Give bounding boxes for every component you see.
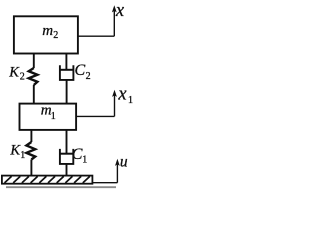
svg-text:1: 1 — [82, 155, 87, 166]
damper C2 — [60, 54, 74, 104]
svg-text:2: 2 — [20, 71, 25, 82]
label C1 — [72, 146, 88, 166]
mass m1 — [20, 104, 77, 130]
svg-text:1: 1 — [20, 150, 25, 161]
label x — [115, 1, 125, 21]
svg-text:m: m — [42, 23, 53, 39]
svg-text:1: 1 — [51, 111, 56, 122]
arrow x1 — [112, 90, 117, 117]
arrow x — [112, 5, 117, 36]
arrow u — [115, 159, 120, 183]
label x1 — [117, 85, 133, 106]
svg-text:2: 2 — [86, 71, 91, 82]
ground hatching — [5, 176, 90, 183]
wire from m2 to x arrow — [78, 35, 114, 37]
label K1 — [9, 142, 25, 161]
label m2 — [42, 23, 58, 41]
label u — [120, 154, 128, 171]
label K2 — [8, 64, 25, 82]
ground base bar — [2, 176, 93, 184]
svg-text:1: 1 — [128, 95, 133, 106]
svg-text:K: K — [8, 64, 20, 80]
wire from base to u arrow — [92, 182, 117, 184]
ground shadow line — [6, 186, 116, 188]
label C2 — [75, 62, 91, 82]
spring K2 — [29, 54, 38, 104]
svg-text:x: x — [117, 85, 127, 105]
svg-text:x: x — [115, 1, 125, 21]
svg-text:C: C — [75, 62, 86, 79]
svg-text:C: C — [72, 146, 83, 163]
mass m2 — [14, 16, 78, 53]
label m1 — [41, 103, 56, 122]
spring K1 — [26, 130, 35, 176]
damper C1 — [60, 130, 73, 176]
wire from m1 to x1 arrow — [76, 115, 114, 117]
svg-text:u: u — [120, 154, 128, 171]
svg-text:2: 2 — [53, 30, 58, 41]
